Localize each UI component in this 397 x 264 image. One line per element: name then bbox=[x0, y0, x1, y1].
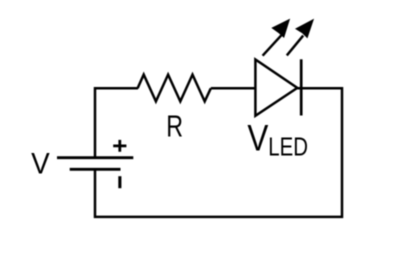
svg-text:V: V bbox=[247, 118, 268, 159]
battery plus sign bbox=[113, 140, 126, 152]
wire: resistor to LED anode bbox=[211, 87, 256, 90]
LED emission arrow 2 bbox=[287, 20, 313, 56]
svg-text:V: V bbox=[31, 148, 50, 181]
wire: LED cathode to right side, down, bottom, up to battery negative bbox=[95, 88, 342, 217]
battery V negative plate (short) bbox=[70, 168, 121, 171]
svg-text:R: R bbox=[166, 108, 183, 143]
LED D1 triangle (anode) bbox=[255, 60, 297, 116]
label V LED: V part bbox=[247, 118, 268, 159]
label V LED: LED subscript bbox=[268, 132, 308, 161]
battery minus mark bbox=[118, 176, 121, 188]
svg-text:LED: LED bbox=[268, 132, 308, 161]
label V (battery) bbox=[31, 148, 50, 181]
LED emission arrow 1 bbox=[263, 20, 290, 56]
label R (resistor) bbox=[166, 108, 183, 143]
resistor R bbox=[138, 75, 211, 102]
battery V positive plate (long) bbox=[57, 156, 133, 159]
wire: top-left corner + left vertical upper segment bbox=[95, 88, 138, 157]
LED cathode bar bbox=[300, 59, 303, 115]
